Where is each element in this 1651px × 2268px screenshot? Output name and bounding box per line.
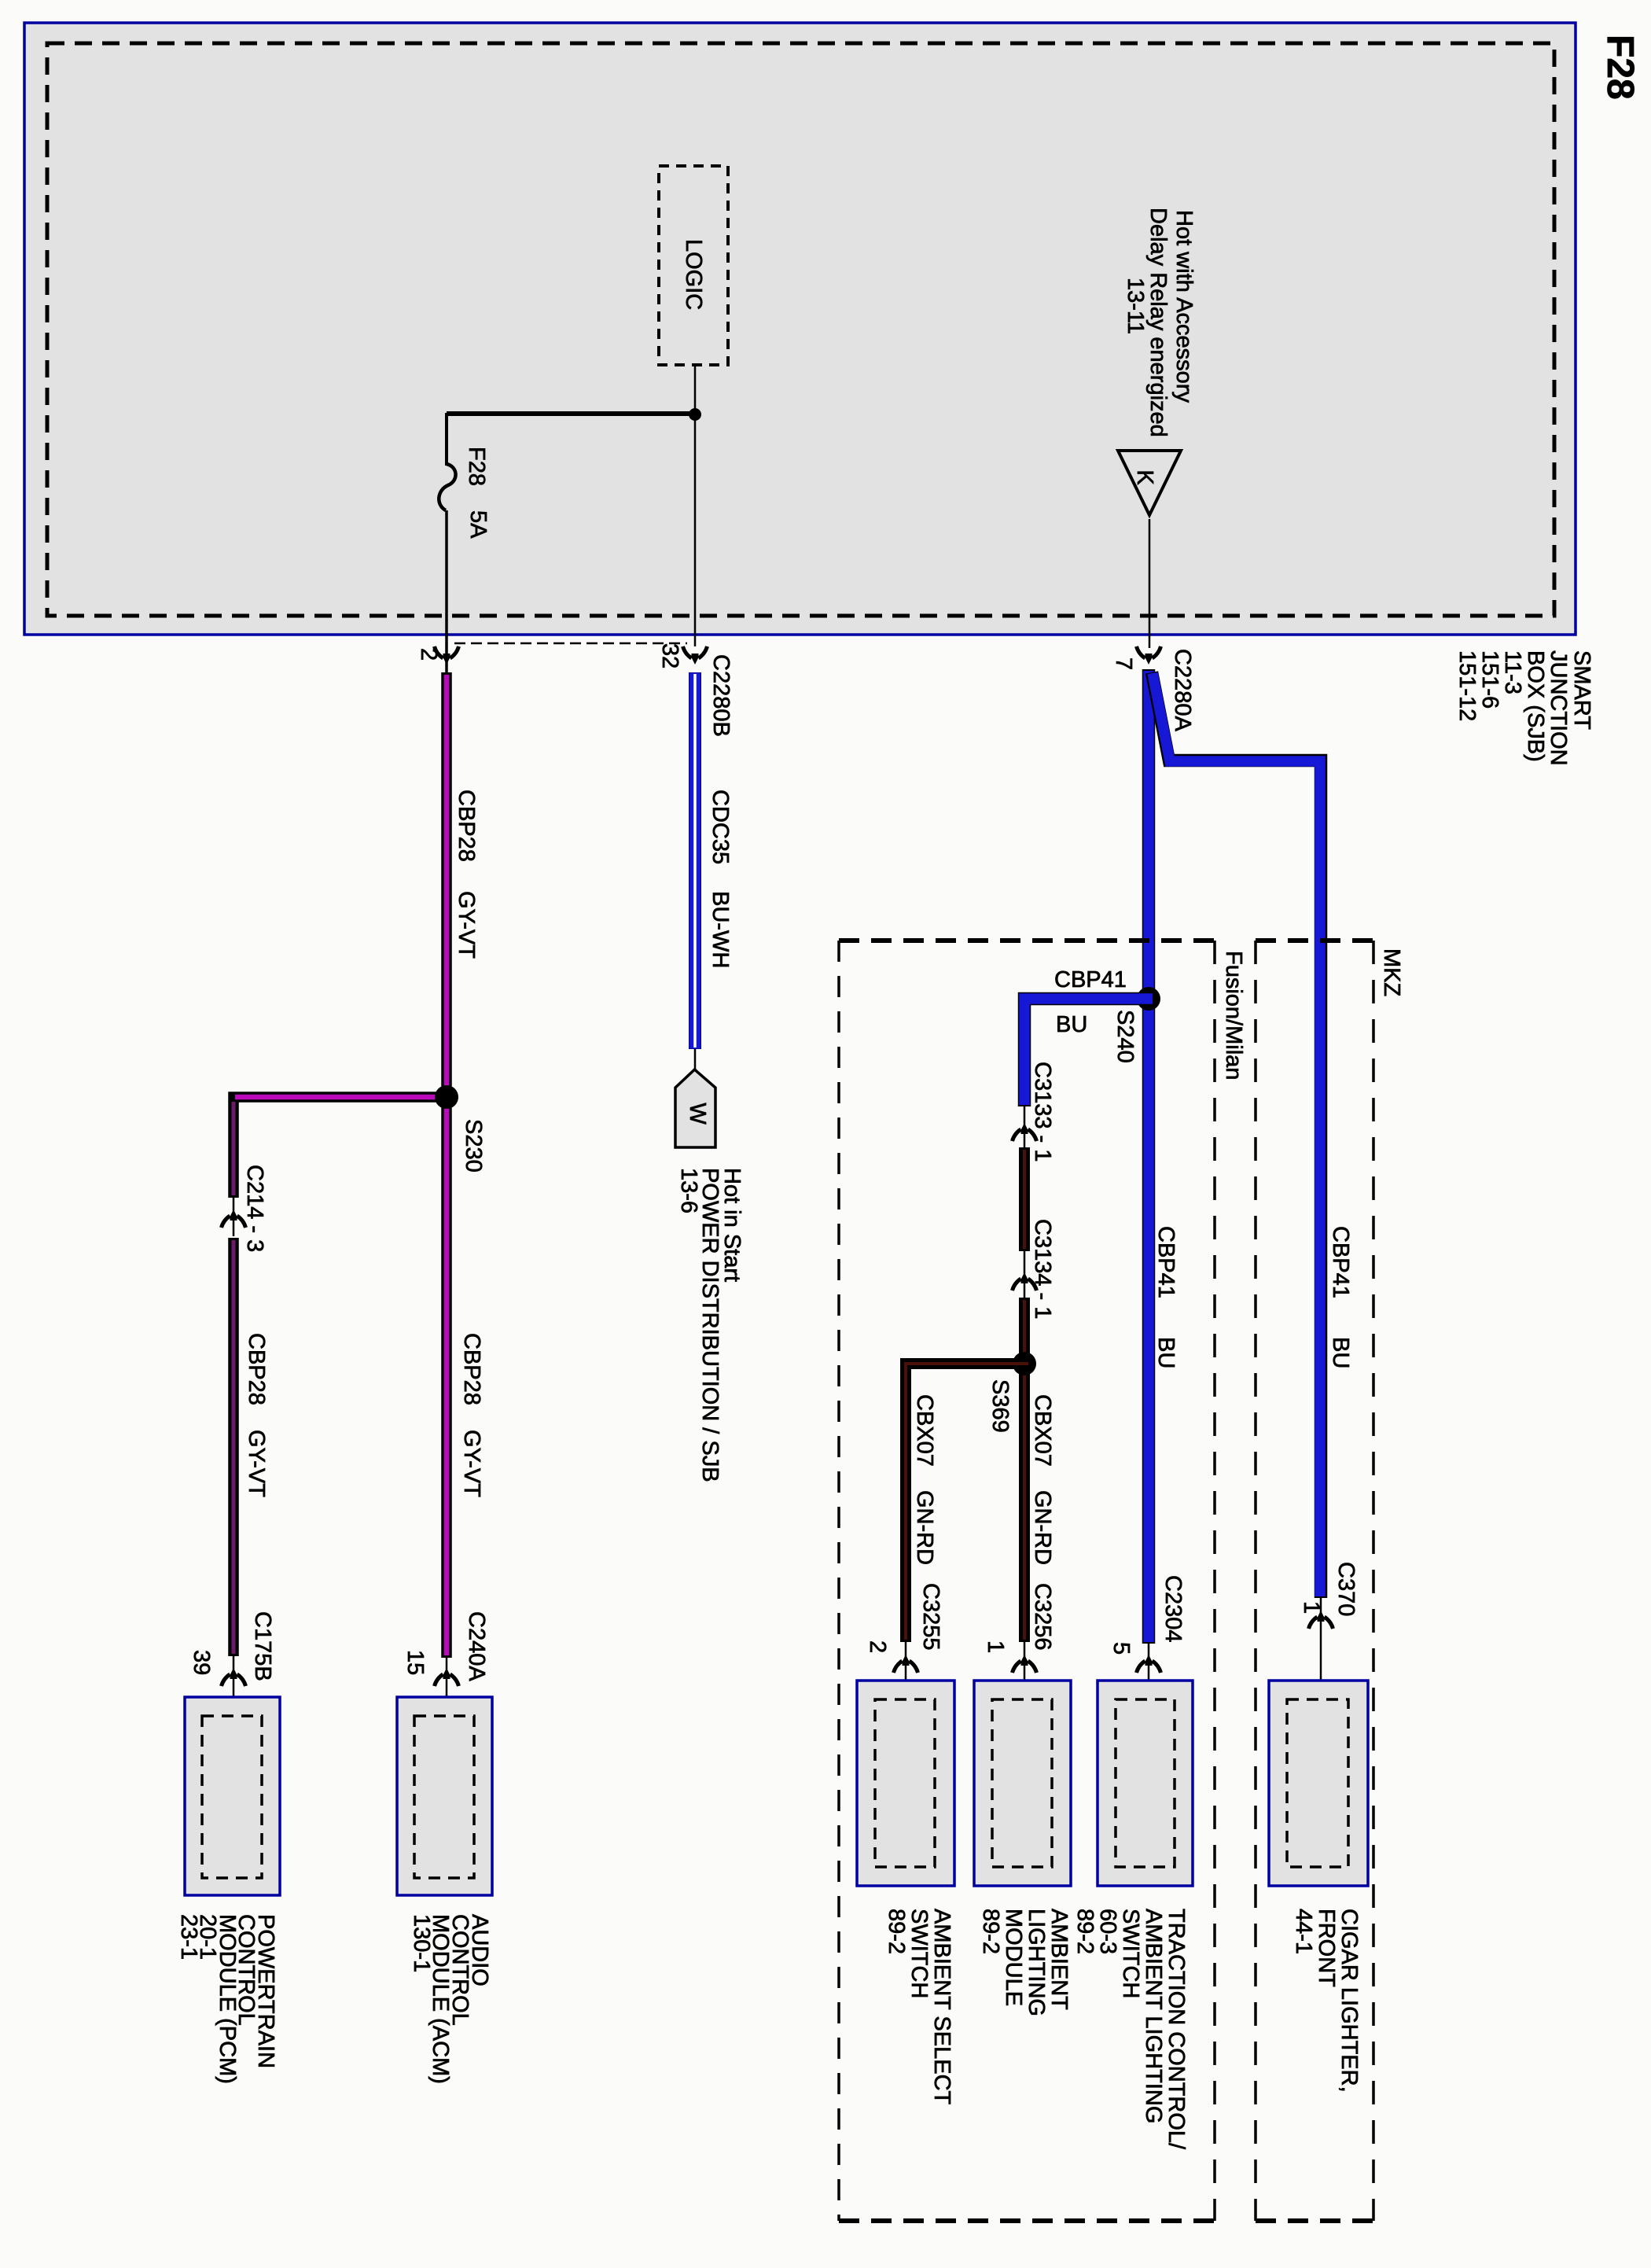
note Hot in Start POWER DISTRIBUTION / SJB 13-6 <box>676 1168 745 1482</box>
svg-text:F28: F28 <box>464 447 489 486</box>
power distribution W symbol <box>675 1070 715 1147</box>
wire into ambient lighting module <box>1024 1675 1026 1699</box>
svg-text:89-2: 89-2 <box>978 1909 1003 1954</box>
svg-text:Fusion/Milan: Fusion/Milan <box>1221 951 1246 1080</box>
connector C3256 arrow <box>1024 1642 1026 1675</box>
wire stub to W symbol <box>694 1049 697 1070</box>
svg-text:GN-RD: GN-RD <box>912 1490 937 1565</box>
connector C3255 arrow <box>905 1642 907 1675</box>
svg-text:C3134 - 1: C3134 - 1 <box>1030 1219 1055 1319</box>
connector C214-3 arrow <box>222 1209 246 1228</box>
svg-text:S230: S230 <box>461 1119 486 1173</box>
wire CDC35 BU-WH pin 32 to power distribution <box>689 672 701 1049</box>
svg-text:AMBIENT SELECT: AMBIENT SELECT <box>929 1909 954 2105</box>
svg-text:C2304: C2304 <box>1160 1575 1186 1642</box>
cigar lighter front box <box>1269 1681 1368 1886</box>
wire into cigar lighter <box>1320 1633 1322 1699</box>
svg-text:Delay Relay energized: Delay Relay energized <box>1145 208 1171 437</box>
pin 7 connector arrow <box>1137 646 1161 665</box>
svg-text:C2280A: C2280A <box>1170 649 1195 731</box>
wire K triangle to pin 7 <box>1149 519 1151 648</box>
Fusion/Milan dashed box <box>839 941 1215 2221</box>
MKZ dashed box <box>1256 941 1373 2221</box>
svg-text:C3256: C3256 <box>1030 1583 1055 1650</box>
svg-text:TRACTION CONTROL/: TRACTION CONTROL/ <box>1164 1909 1189 2150</box>
SJB inner dashed border <box>47 43 1554 616</box>
wire LOGIC output to pin 32 <box>694 365 697 646</box>
wire CBP28 GY-VT branch to C214-3 <box>232 1102 236 1195</box>
junction node at logic feed <box>689 408 701 421</box>
svg-text:C370: C370 <box>1333 1562 1359 1616</box>
svg-text:LIGHTING: LIGHTING <box>1024 1909 1049 2016</box>
svg-text:K: K <box>1132 469 1157 485</box>
wire CBX07 GN-RD C3133 to C3134 <box>1019 1147 1030 1251</box>
svg-text:CBP28: CBP28 <box>459 1333 484 1405</box>
label CIGAR LIGHTER, FRONT 44-1 <box>1291 1909 1362 2093</box>
svg-text:2: 2 <box>416 648 441 661</box>
label TRACTION CONTROL/AMBIENT LIGHTING SWITCH 60-3 89-2 <box>1072 1909 1189 2150</box>
svg-text:Hot with Accessory: Hot with Accessory <box>1171 210 1197 403</box>
svg-text:151-6: 151-6 <box>1477 650 1502 709</box>
svg-text:32: 32 <box>657 643 682 668</box>
svg-text:GY-VT: GY-VT <box>459 1430 484 1497</box>
svg-text:GY-VT: GY-VT <box>244 1430 269 1497</box>
svg-text:C214 - 3: C214 - 3 <box>242 1165 267 1252</box>
svg-text:BU: BU <box>1328 1337 1353 1368</box>
wire CBP41 BU branch to cigar lighter <box>1152 672 1321 1598</box>
smart junction box SJB outline <box>24 23 1576 635</box>
svg-text:5A: 5A <box>465 510 491 539</box>
label AMBIENT SELECT SWITCH 89-2 <box>884 1909 954 2105</box>
connector C3134-1 arrow <box>1024 1251 1026 1298</box>
wire into traction control switch <box>1148 1675 1150 1699</box>
svg-text:SMART: SMART <box>1569 650 1594 730</box>
junction S240 <box>1137 987 1160 1011</box>
svg-text:S240: S240 <box>1112 1010 1138 1063</box>
svg-text:LOGIC: LOGIC <box>681 239 706 310</box>
connector C2304 arrow <box>1148 1644 1150 1675</box>
svg-text:FRONT: FRONT <box>1314 1909 1339 1987</box>
svg-text:W: W <box>685 1103 710 1125</box>
svg-text:5: 5 <box>1109 1642 1134 1655</box>
label SMART JUNCTION BOX (SJB) 11-3 151-6 151-12 <box>1454 650 1594 766</box>
hot feed triangle K <box>1118 451 1181 515</box>
svg-text:CBP41: CBP41 <box>1328 1226 1353 1298</box>
svg-text:CDC35: CDC35 <box>708 790 733 864</box>
svg-text:13-11: 13-11 <box>1123 278 1148 334</box>
svg-text:C2280B: C2280B <box>708 654 734 737</box>
svg-text:1: 1 <box>1299 1601 1324 1614</box>
svg-text:AMBIENT LIGHTING: AMBIENT LIGHTING <box>1141 1909 1166 2123</box>
wire CBP28 GY-VT C214-3 to C175B <box>228 1238 239 1656</box>
svg-text:CBP28: CBP28 <box>244 1333 269 1405</box>
svg-text:BU: BU <box>1056 1012 1087 1037</box>
svg-text:23-1: 23-1 <box>176 1914 201 1960</box>
fuse F28 5A symbol <box>439 464 455 510</box>
svg-text:CBP28: CBP28 <box>454 790 479 862</box>
svg-text:S369: S369 <box>987 1379 1013 1433</box>
label AMBIENT LIGHTING MODULE 89-2 <box>978 1909 1072 2016</box>
svg-text:SWITCH: SWITCH <box>906 1909 932 1998</box>
svg-text:CBX07: CBX07 <box>912 1394 937 1467</box>
logic block U1 dashed box <box>659 166 728 365</box>
ambient lighting module box <box>974 1681 1071 1886</box>
pin 32 connector arrow <box>683 646 708 665</box>
wire CBX07 GN-RD S369 branch to C3255 <box>906 1364 1030 1642</box>
svg-text:15: 15 <box>403 1650 428 1675</box>
svg-text:JUNCTION: JUNCTION <box>1546 650 1571 766</box>
svg-text:60-3: 60-3 <box>1095 1909 1120 1954</box>
svg-text:C3133 - 1: C3133 - 1 <box>1030 1062 1055 1162</box>
ambient select switch box <box>857 1681 954 1886</box>
svg-text:CIGAR LIGHTER,: CIGAR LIGHTER, <box>1337 1909 1362 2093</box>
wire fuse output to pin 2 <box>445 510 448 672</box>
connector C3133-1 arrow <box>1024 1106 1026 1147</box>
svg-text:44-1: 44-1 <box>1291 1909 1316 1954</box>
junction S369 <box>1013 1352 1036 1375</box>
label AUDIO CONTROL MODULE (ACM) 130-1 <box>409 1914 492 2084</box>
connector C2280B dashed bracket <box>454 642 687 645</box>
svg-text:GY-VT: GY-VT <box>454 891 479 959</box>
wire CBP41 BU S240 branch to C3133-1 <box>1024 999 1154 1106</box>
svg-text:BU-WH: BU-WH <box>708 891 733 968</box>
svg-text:C175B: C175B <box>250 1611 275 1681</box>
note Hot with Accessory Delay Relay energized 13-11 <box>1123 208 1197 437</box>
svg-text:BU: BU <box>1153 1337 1178 1368</box>
connector C370 arrow <box>1320 1598 1322 1633</box>
svg-text:POWER DISTRIBUTION / SJB: POWER DISTRIBUTION / SJB <box>697 1168 723 1482</box>
label POWERTRAIN CONTROL MODULE (PCM) 20-1 23-1 <box>176 1914 278 2084</box>
svg-text:MKZ: MKZ <box>1379 948 1404 996</box>
svg-text:7: 7 <box>1111 657 1136 670</box>
powertrain control module PCM box <box>185 1697 280 1895</box>
svg-text:BOX (SJB): BOX (SJB) <box>1523 650 1548 762</box>
wire into ACM <box>446 1691 448 1716</box>
svg-text:C3255: C3255 <box>918 1583 943 1650</box>
svg-text:CBP41: CBP41 <box>1054 967 1127 992</box>
svg-text:89-2: 89-2 <box>884 1909 909 1954</box>
svg-text:C240A: C240A <box>464 1611 489 1681</box>
connector C175B arrow <box>233 1656 235 1691</box>
svg-text:CBX07: CBX07 <box>1030 1394 1055 1467</box>
svg-text:89-2: 89-2 <box>1072 1909 1098 1954</box>
wire CBP41 BU pin 7 to C2304 <box>1142 669 1156 1644</box>
svg-text:GN-RD: GN-RD <box>1030 1490 1055 1565</box>
svg-text:AMBIENT: AMBIENT <box>1046 1909 1072 2010</box>
svg-text:151-12: 151-12 <box>1454 650 1480 721</box>
pin 2 connector arrow <box>435 646 459 665</box>
wire CBP28 GY-VT pin 2 to S230 to C240A <box>441 672 452 1658</box>
svg-text:130-1: 130-1 <box>409 1914 434 1972</box>
svg-text:F28: F28 <box>1599 35 1641 100</box>
junction S230 <box>435 1085 458 1109</box>
wire into ambient select switch <box>905 1675 907 1699</box>
svg-text:2: 2 <box>865 1640 890 1653</box>
svg-text:11-3: 11-3 <box>1500 650 1525 694</box>
svg-text:13-6: 13-6 <box>676 1168 701 1213</box>
wire CBX07 GN-RD C3134 to S369 and C3256 <box>1019 1298 1030 1642</box>
wire feed bus from fuse to logic <box>447 411 695 416</box>
wire into PCM <box>233 1691 235 1716</box>
connector C240A arrow <box>446 1656 448 1691</box>
svg-text:SWITCH: SWITCH <box>1118 1909 1143 1998</box>
wire feed drop to fuse F28 <box>445 413 448 466</box>
svg-text:1: 1 <box>983 1640 1008 1653</box>
svg-text:CBP41: CBP41 <box>1153 1226 1178 1298</box>
svg-text:39: 39 <box>189 1650 214 1675</box>
audio control module ACM box <box>397 1697 492 1895</box>
traction control ambient lighting switch box <box>1098 1681 1193 1886</box>
svg-text:MODULE: MODULE <box>1001 1909 1026 2006</box>
